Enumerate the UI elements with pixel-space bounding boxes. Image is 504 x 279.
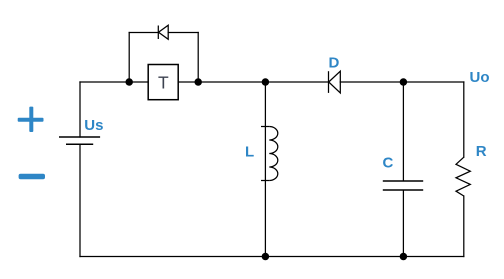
- plus terminal mark: [18, 107, 44, 132]
- wire: left branch upper (corner down to battery top plate): [79, 82, 81, 137]
- transistor T (switch box): [148, 65, 178, 100]
- inductor L: [261, 82, 278, 257]
- wire: bottom wire: [80, 256, 464, 258]
- wire: right branch lower (resistor to bottom wire): [463, 196, 465, 257]
- svg-text:R: R: [476, 143, 487, 160]
- svg-text:Uo: Uo: [470, 69, 490, 86]
- voltage source Us (battery): [59, 137, 100, 144]
- node dot bottom of C: [400, 253, 408, 261]
- svg-text:C: C: [383, 154, 394, 171]
- node dot top of L: [262, 78, 270, 86]
- node dot top of C: [400, 78, 408, 86]
- minus terminal mark: [19, 174, 45, 179]
- wire: bypass top right segment: [168, 32, 198, 34]
- diode across T (antiparallel, pointing left): [158, 25, 168, 39]
- wire: bypass left vertical: [128, 33, 130, 83]
- svg-text:T: T: [158, 72, 169, 92]
- node dot bottom of L: [262, 253, 270, 261]
- svg-text:D: D: [329, 55, 340, 72]
- capacitor C: [383, 82, 423, 257]
- svg-text:Us: Us: [84, 117, 103, 134]
- wire: top wire left segment (source corner to T box): [80, 81, 148, 83]
- node dot left of T: [125, 78, 133, 86]
- wire: right branch upper (corner to resistor): [463, 82, 465, 157]
- resistor R (zigzag): [456, 157, 470, 196]
- wire: left branch lower (battery bottom plate to bottom wire): [79, 144, 81, 256]
- wire: bypass right vertical: [197, 33, 199, 83]
- node dot right of T: [194, 78, 202, 86]
- wire: top wire from T box to diode D bar: [178, 81, 328, 83]
- wire: bypass top left segment: [129, 32, 158, 34]
- wire: top wire from diode D to top-right corner: [340, 81, 464, 83]
- diode D (pointing left): [329, 71, 341, 93]
- svg-text:L: L: [245, 143, 254, 160]
